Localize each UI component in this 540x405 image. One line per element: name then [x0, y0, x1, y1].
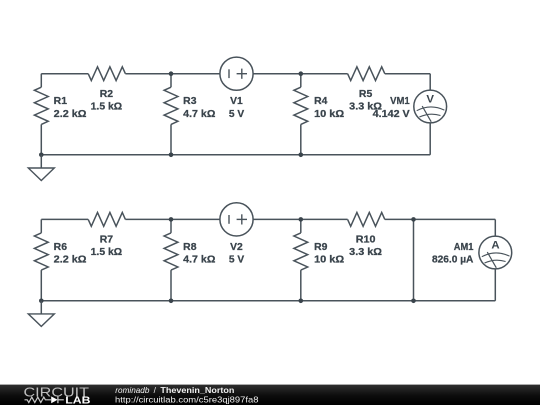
- voltage source V2: [220, 203, 253, 236]
- voltmeter VM1: [429, 74, 431, 90]
- ground 2: [40, 301, 42, 314]
- node bottom-left: [39, 153, 44, 158]
- svg-text:Thevenin_Norton: Thevenin_Norton: [160, 385, 234, 395]
- svg-text:1.5 kΩ: 1.5 kΩ: [91, 247, 123, 258]
- node top-R9: [299, 217, 304, 222]
- svg-text:4.7 kΩ: 4.7 kΩ: [183, 109, 215, 120]
- wire top rail left segment: [41, 73, 88, 75]
- wire bottom rail 2: [41, 300, 495, 302]
- footer bar: [0, 385, 540, 405]
- svg-text:AM1: AM1: [454, 242, 474, 253]
- svg-text:2.2 kΩ: 2.2 kΩ: [54, 109, 87, 120]
- node top-junction: [411, 217, 416, 222]
- svg-text:V2: V2: [230, 242, 243, 253]
- wire top rail right segment 2: [385, 218, 496, 220]
- svg-text:10 kΩ: 10 kΩ: [314, 255, 344, 266]
- svg-text:5 V: 5 V: [229, 109, 245, 120]
- svg-text:5 V: 5 V: [229, 255, 245, 266]
- svg-text:http://circuitlab.com/c5re3qj8: http://circuitlab.com/c5re3qj897fa8: [115, 394, 259, 404]
- wire top rail left segment 2: [41, 218, 88, 220]
- node top-R3: [169, 71, 174, 76]
- voltage source V1: [220, 57, 253, 90]
- svg-text:1.5 kΩ: 1.5 kΩ: [91, 101, 123, 112]
- svg-text:4.7 kΩ: 4.7 kΩ: [183, 255, 215, 266]
- resistor R9: [300, 219, 302, 233]
- resistor R6: [40, 219, 42, 233]
- node top-R4: [299, 71, 304, 76]
- node bottom-R9: [299, 299, 304, 304]
- svg-text:rominadb: rominadb: [115, 385, 149, 395]
- resistor R5: [348, 67, 385, 81]
- ammeter AM1: [494, 219, 496, 236]
- resistor R4: [300, 74, 302, 88]
- resistor R1: [40, 74, 42, 88]
- svg-text:A: A: [491, 240, 499, 252]
- wire top rail V2 to R10: [253, 218, 348, 220]
- svg-text:826.0 µA: 826.0 µA: [432, 255, 473, 266]
- svg-text:10 kΩ: 10 kΩ: [314, 109, 344, 120]
- node bottom-left 2: [39, 299, 44, 304]
- svg-text:R6: R6: [54, 242, 68, 253]
- svg-text:LAB: LAB: [65, 395, 91, 405]
- wire junction rail: [413, 219, 415, 300]
- node top-R8: [169, 217, 174, 222]
- svg-text:R7: R7: [100, 235, 114, 246]
- svg-text:R2: R2: [100, 89, 114, 100]
- resistor R8: [170, 219, 172, 233]
- node bottom-R8: [169, 299, 174, 304]
- node bottom-junction: [411, 299, 416, 304]
- logo diode: [51, 396, 57, 403]
- svg-text:2.2 kΩ: 2.2 kΩ: [54, 255, 87, 266]
- wire bottom rail: [41, 154, 430, 156]
- svg-text:R4: R4: [314, 96, 328, 107]
- svg-text:V1: V1: [230, 96, 243, 107]
- svg-text:R3: R3: [183, 96, 197, 107]
- node bottom-R3: [169, 153, 174, 158]
- svg-text:V: V: [426, 94, 434, 106]
- svg-text:R8: R8: [183, 242, 197, 253]
- node bottom-R4: [299, 153, 304, 158]
- svg-text:3.3 kΩ: 3.3 kΩ: [349, 247, 382, 258]
- logo resistor squiggle: [25, 397, 52, 402]
- resistor R2: [88, 67, 125, 81]
- wire top rail V1 to R5: [253, 73, 348, 75]
- svg-text:R1: R1: [54, 96, 68, 107]
- wire top rail R2 to V1: [125, 73, 219, 75]
- resistor R7: [88, 213, 125, 227]
- wire top rail right segment: [385, 73, 430, 75]
- svg-text:VM1: VM1: [390, 96, 410, 107]
- resistor R3: [170, 74, 172, 88]
- wire top rail R7 to V2: [125, 218, 219, 220]
- svg-text:4.142 V: 4.142 V: [373, 109, 411, 120]
- svg-text:R10: R10: [356, 235, 376, 246]
- ground: [40, 155, 42, 168]
- svg-text:R5: R5: [359, 89, 373, 100]
- resistor R10: [348, 213, 385, 227]
- svg-text:R9: R9: [314, 242, 328, 253]
